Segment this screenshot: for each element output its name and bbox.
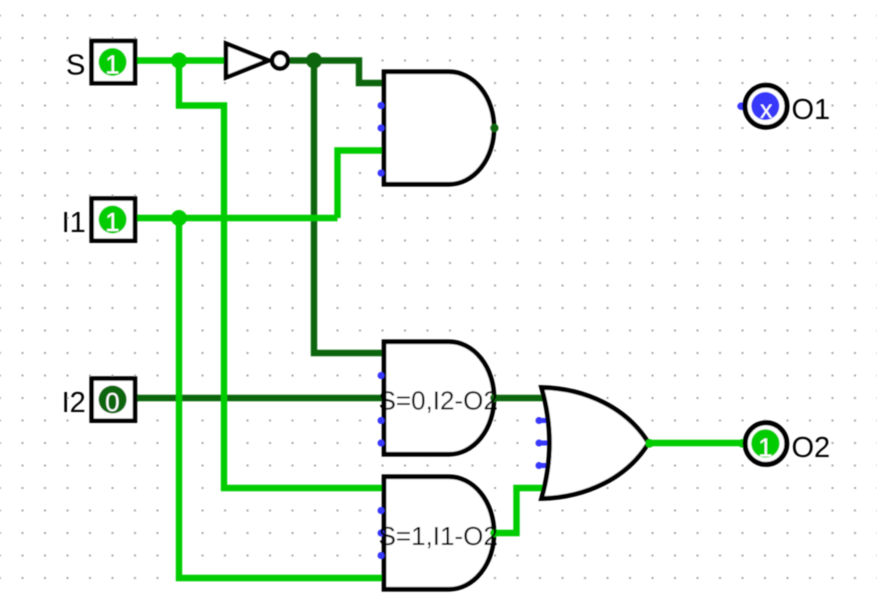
wire OR output to O2	[648, 440, 742, 446]
svg-text:S: S	[66, 50, 85, 82]
input pin I1 value disc	[99, 206, 127, 234]
pin port dot I1	[131, 214, 140, 223]
svg-text:1: 1	[105, 207, 119, 237]
pin blue dot AND2 input4	[378, 417, 385, 424]
svg-text:0: 0	[105, 387, 119, 417]
pin blue dot AND1 input3	[378, 125, 385, 132]
input pin S value disc	[99, 48, 127, 76]
NOT gate U5 bubble	[272, 53, 288, 69]
svg-text:1: 1	[105, 50, 119, 80]
svg-text:S=1,I1-O2: S=1,I1-O2	[379, 521, 498, 551]
pin port dot O2	[738, 439, 747, 448]
wire I1 riser up to AND1 input4	[338, 151, 385, 219]
svg-text:O1: O1	[792, 94, 831, 126]
pin dark dot AND1 output	[490, 124, 498, 132]
pin blue dot OR input3	[536, 440, 543, 447]
pin blue dot AND1 input2	[378, 102, 385, 109]
pin bright dot AND3 output	[490, 529, 498, 537]
AND gate U1 top	[384, 72, 494, 185]
pin blue dot AND3 input4	[378, 552, 385, 559]
op: blue stub OR input2	[539, 418, 555, 423]
pin port dot I2	[131, 394, 140, 403]
svg-text:1: 1	[758, 432, 772, 462]
NOT gate U5 triangle	[226, 44, 269, 78]
wire NOT output junction down to AND2 input1	[314, 61, 384, 354]
pin blue dot AND3 input2	[378, 507, 385, 514]
svg-text:x: x	[760, 96, 773, 124]
wire NOT output to AND1 input1 via jog	[290, 61, 384, 84]
wire S pin to NOT input	[134, 57, 226, 63]
pin blue dot AND2 input5	[378, 440, 385, 447]
node junction I1	[171, 210, 187, 226]
pin blue dot AND2 input2	[378, 372, 385, 379]
svg-text:O2: O2	[792, 432, 831, 464]
node junction S	[171, 53, 187, 69]
input pin I1 box	[92, 199, 135, 241]
svg-text:I2: I2	[62, 387, 86, 419]
output pin O2 value disc	[751, 429, 779, 457]
pin bright dot OR output	[645, 439, 654, 448]
pin port dot S	[131, 56, 140, 65]
output pin O1 ring	[745, 85, 787, 127]
pin blue dot AND1 input5	[378, 170, 385, 177]
pin blue dot AND3 input3	[378, 530, 385, 537]
wire I1 pin rightwards	[134, 215, 338, 221]
OR gate U4	[542, 388, 649, 499]
wire AND3 output riser to OR input5	[494, 488, 556, 533]
input pin I2 value disc	[99, 386, 127, 414]
svg-text:I1: I1	[62, 207, 86, 239]
AND gate U3 bottom	[384, 477, 494, 590]
node junction NOT output	[306, 53, 322, 69]
wire AND2 output to OR input1	[494, 395, 556, 401]
op: blue stub OR input3	[539, 441, 555, 446]
svg-text:S=0,I2-O2: S=0,I2-O2	[379, 386, 498, 416]
wire S junction down-jog to AND3 input1	[179, 61, 384, 489]
output pin O1 value disc unknown	[751, 92, 779, 120]
op: blue stub OR input4	[539, 463, 555, 468]
output pin O1 blue input stub dot	[737, 102, 746, 110]
input pin S box	[92, 41, 135, 83]
input pin I2 box	[92, 379, 135, 421]
wire I2 to AND2 input3 (value 0, dark green)	[134, 395, 384, 401]
pin dark dot AND2 output	[490, 394, 498, 402]
pin blue dot OR input2	[536, 417, 543, 424]
wire I1 junction down to AND3 input5	[179, 218, 384, 578]
pin blue dot OR input4	[536, 462, 543, 469]
AND gate U2 middle	[384, 342, 494, 455]
output pin O2 ring	[745, 423, 787, 465]
